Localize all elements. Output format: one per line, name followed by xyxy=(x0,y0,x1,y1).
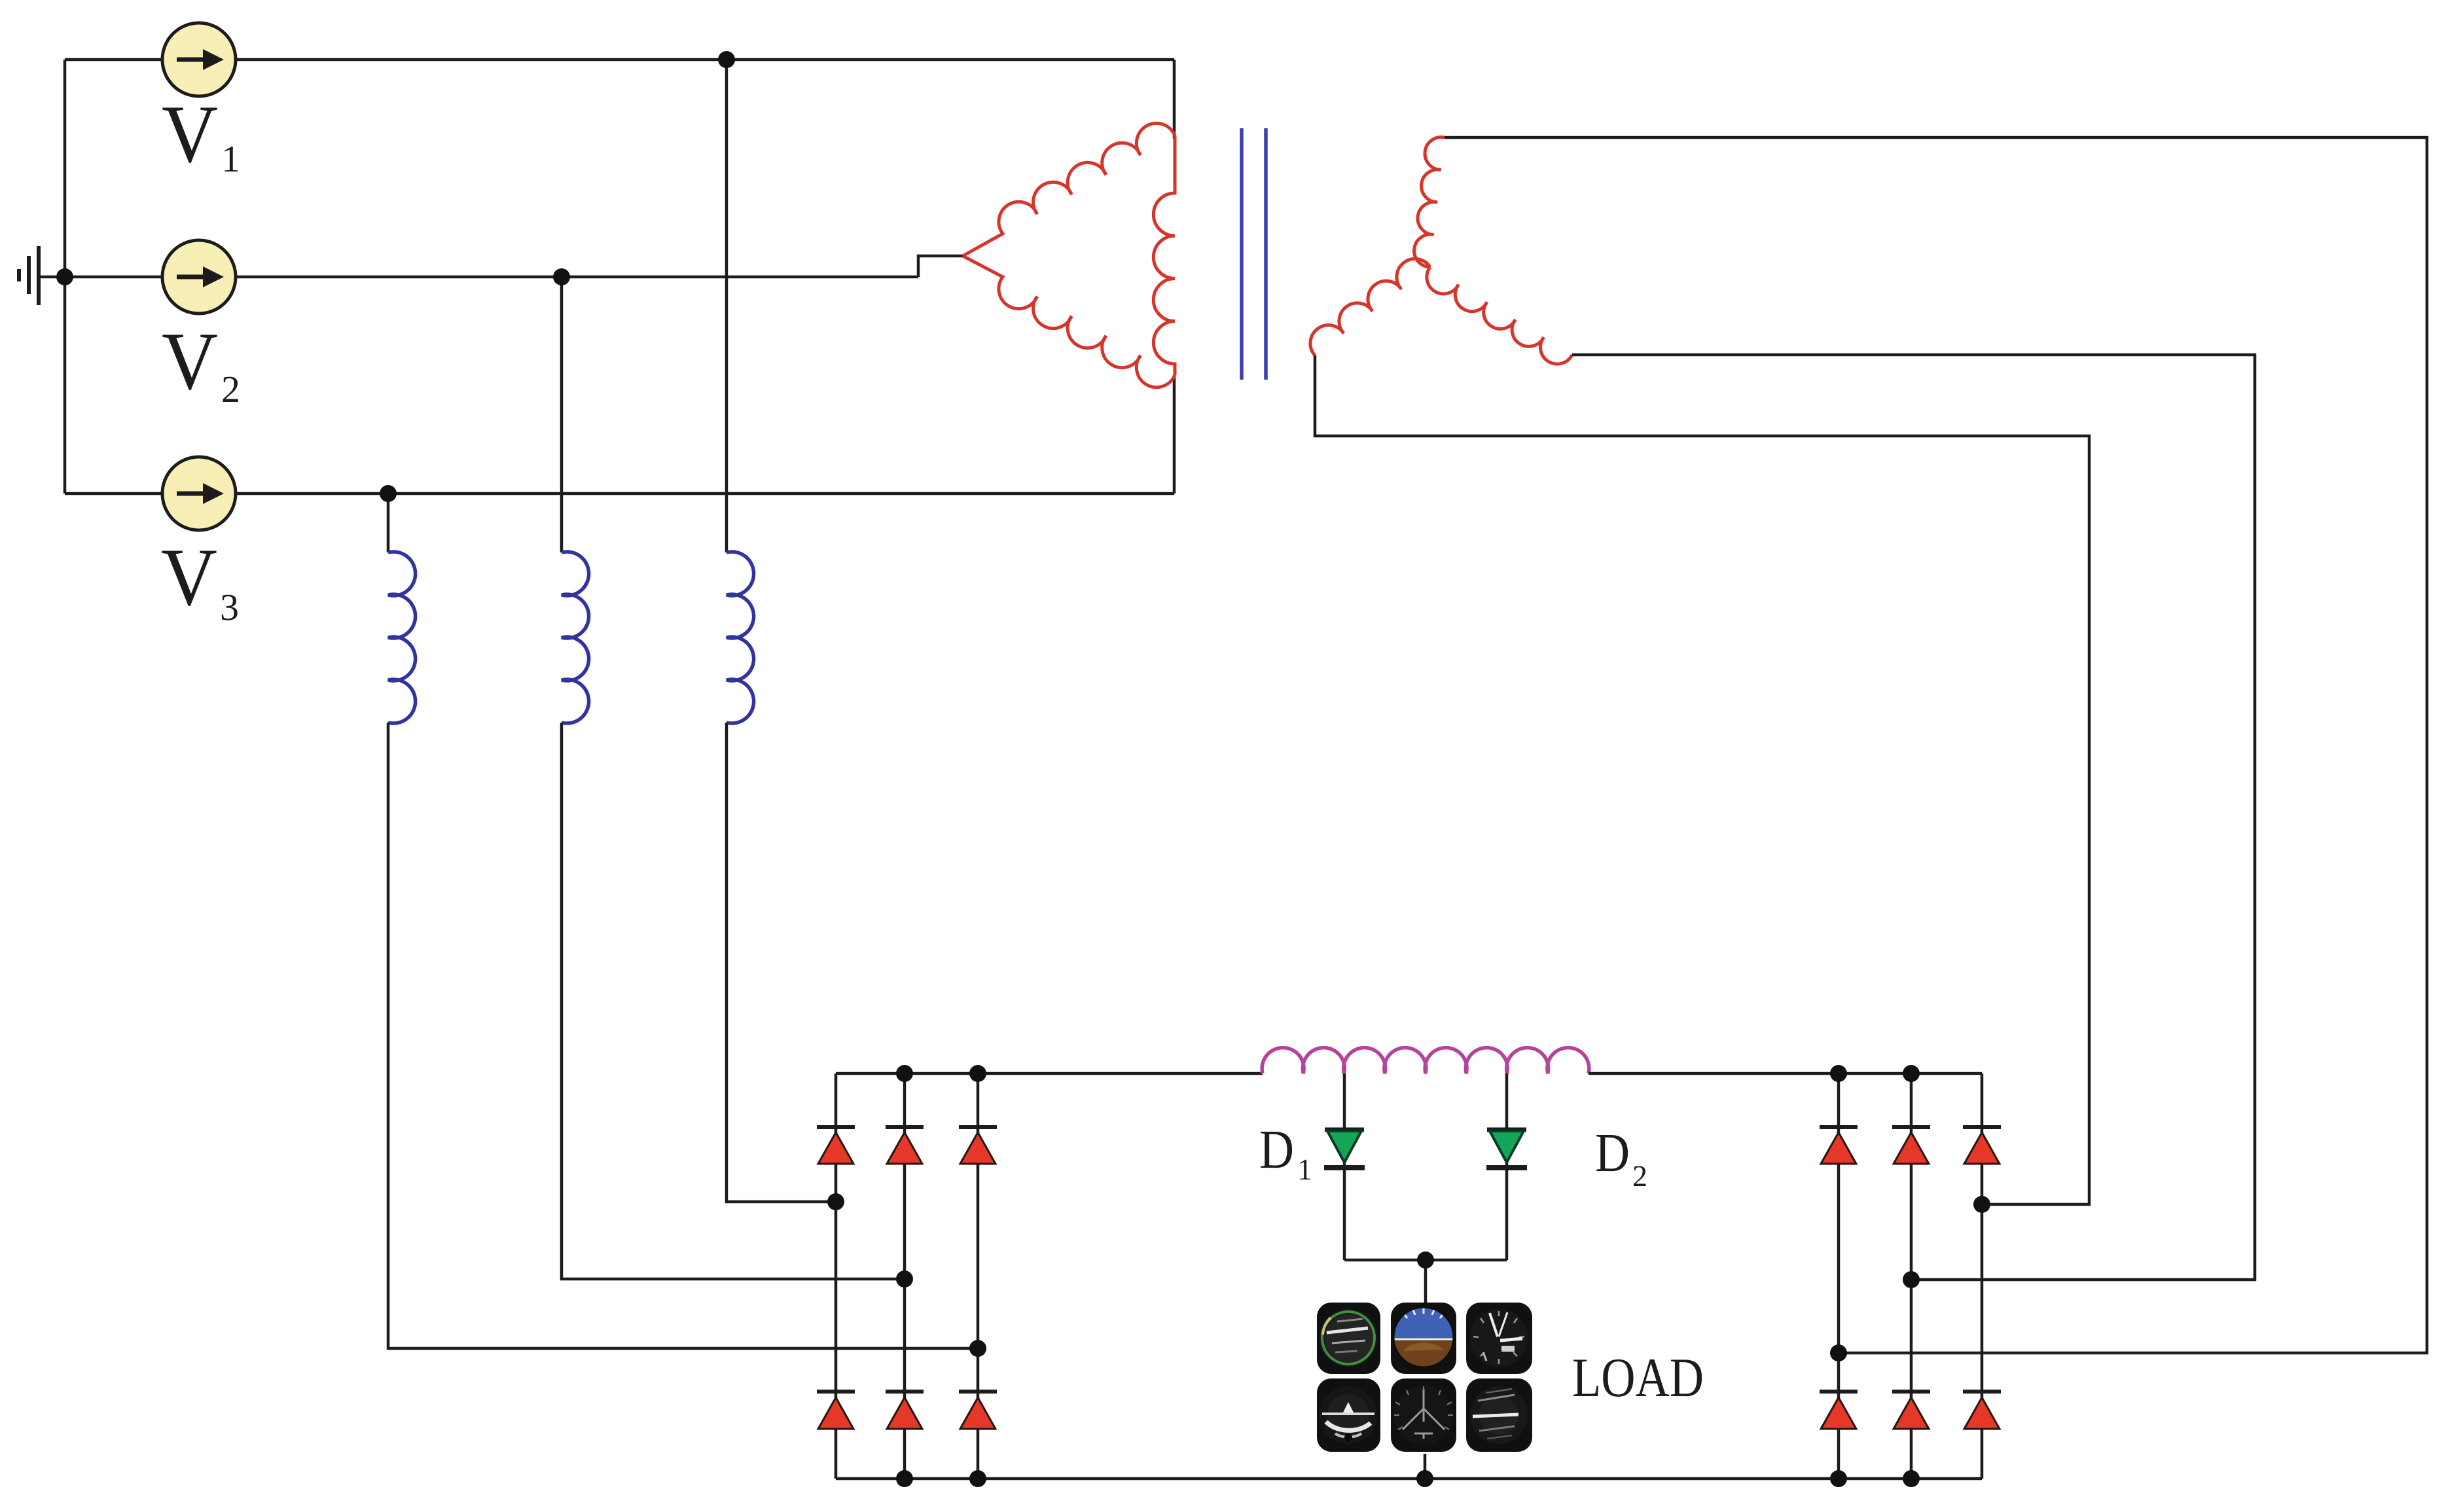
node: left leg2 mid xyxy=(896,1270,913,1287)
transformer core xyxy=(1240,128,1244,380)
diode left bank top 3 xyxy=(959,1127,997,1164)
wire: wye bottom-right arm to middle right L, down to right-bank leg2 xyxy=(1572,355,2255,1280)
svg-text:V: V xyxy=(162,89,218,180)
node: top bus / left leg3 xyxy=(969,1065,986,1082)
transformer delta winding bottom side xyxy=(963,256,1175,387)
right rectifier leg 1 xyxy=(1837,1073,1840,1479)
wire: top DC bus right segment xyxy=(1589,1072,1982,1075)
svg-text:V: V xyxy=(161,532,217,623)
load instrument 4 (horizon reference) xyxy=(1317,1378,1380,1452)
wire: stub down to load xyxy=(1424,1260,1427,1304)
left rectifier leg 2 xyxy=(903,1073,907,1479)
diode left bank top 2 xyxy=(886,1127,924,1164)
svg-text:2: 2 xyxy=(221,368,240,410)
wire: left vertical bus xyxy=(63,60,67,494)
svg-text:1: 1 xyxy=(1297,1153,1312,1186)
inductor L3 xyxy=(727,552,754,723)
node: bottom bus / right leg1 xyxy=(1830,1470,1847,1487)
wire: L2 down and right to left-bank leg2 xyxy=(562,723,905,1279)
node: bottom bus / left leg2 xyxy=(896,1470,913,1487)
left rectifier leg 3 xyxy=(977,1073,980,1479)
load instrument 2 (attitude indicator) xyxy=(1391,1302,1456,1374)
transformer delta winding top side xyxy=(963,123,1175,256)
node: bottom bus / right leg2 xyxy=(1903,1470,1920,1487)
diode left bank bottom 1 xyxy=(817,1392,855,1429)
wire: V2 row step up to delta apex xyxy=(918,256,963,277)
right rectifier leg 2 xyxy=(1910,1073,1913,1479)
transformer delta winding right side xyxy=(1153,135,1175,375)
svg-text:D: D xyxy=(1595,1123,1630,1183)
freewheeling diode D1 (green) xyxy=(1324,1130,1365,1168)
filter choke (pink) xyxy=(1262,1048,1589,1073)
wire: L3 down and right to left-bank leg1 xyxy=(727,723,836,1202)
node: left leg3 mid xyxy=(969,1340,986,1357)
transformer wye winding top arm xyxy=(1414,137,1445,267)
wire: V1 row top horizontal xyxy=(65,58,1174,62)
svg-text:V: V xyxy=(162,316,218,407)
node: D1-D2 junction xyxy=(1417,1251,1434,1269)
voltage source V1 xyxy=(162,23,236,96)
node: right leg2 mid xyxy=(1903,1271,1920,1288)
load instrument 6 (airspeed) xyxy=(1466,1378,1532,1452)
wire: branch from V2 row to inductor L2 xyxy=(560,277,564,552)
wire: delta bottom stub xyxy=(1173,375,1176,494)
inductor L1 xyxy=(388,552,416,723)
left rectifier leg 1 xyxy=(835,1073,838,1479)
node: V1 row / L3 branch xyxy=(718,51,735,68)
voltage source V2 xyxy=(162,240,236,314)
diode right bank top 2 xyxy=(1892,1127,1930,1164)
svg-text:2: 2 xyxy=(1632,1159,1647,1193)
voltage source V3 xyxy=(162,457,236,530)
wire: D2 branch vertical xyxy=(1505,1073,1509,1260)
load instrument 1 (turn coordinator) xyxy=(1317,1303,1380,1374)
diode left bank bottom 2 xyxy=(886,1392,924,1429)
inductor L2 xyxy=(562,552,589,723)
svg-text:D: D xyxy=(1259,1119,1294,1180)
wire: delta top stub xyxy=(1173,60,1176,139)
diode right bank bottom 1 xyxy=(1820,1392,1858,1429)
wire: D1 branch vertical xyxy=(1343,1073,1346,1260)
wire: L1 down and right to left-bank leg3 xyxy=(388,723,978,1348)
wire: branch from V3 row to inductor L1 xyxy=(387,494,390,552)
ground xyxy=(19,246,39,305)
diode left bank bottom 3 xyxy=(959,1392,997,1429)
diode right bank top 3 xyxy=(1963,1127,2001,1164)
node: top bus / left leg2 xyxy=(896,1065,913,1082)
freewheeling diode D2 (green) xyxy=(1486,1130,1527,1168)
node: V2 row / ground xyxy=(56,268,73,285)
node: left leg1 mid xyxy=(827,1193,844,1210)
svg-text:1: 1 xyxy=(221,137,240,180)
diode left bank top 1 xyxy=(817,1127,855,1164)
load instrument 5 (heading indicator) xyxy=(1391,1378,1456,1452)
node: bottom bus / load xyxy=(1416,1470,1433,1487)
wire: wye top arm to outer right L, down to right-bank leg1 xyxy=(1445,137,2427,1353)
diode right bank top 1 xyxy=(1820,1127,1858,1164)
node: V3 row / L1 branch xyxy=(380,485,397,502)
wire: stub load bottom to bus xyxy=(1424,1454,1427,1479)
wire: wye bottom-left arm down, right, down to right-bank leg3 xyxy=(1315,355,2089,1204)
wire: D1-D2 bottom joining wire xyxy=(1344,1259,1507,1262)
node: bottom bus / left leg3 xyxy=(969,1470,986,1487)
wire: V2 row horizontal xyxy=(39,276,918,279)
node: top bus / right leg1 xyxy=(1830,1065,1847,1082)
wire: branch from V1 row to inductor L3 xyxy=(725,60,728,552)
node: V2 row / L2 branch xyxy=(553,268,570,285)
right rectifier leg 3 xyxy=(1981,1073,1984,1479)
node: top bus / right leg2 xyxy=(1903,1065,1920,1082)
transformer wye winding bottom-left arm xyxy=(1310,259,1430,355)
node: right leg3 mid xyxy=(1973,1196,1990,1213)
wire: top DC bus left segment xyxy=(836,1072,1263,1075)
svg-text:LOAD: LOAD xyxy=(1572,1347,1704,1409)
load instrument 3 (chronometer) xyxy=(1466,1303,1532,1374)
diode right bank bottom 3 xyxy=(1963,1392,2001,1429)
diode right bank bottom 2 xyxy=(1892,1392,1930,1429)
wire: bottom DC bus xyxy=(836,1477,1982,1481)
transformer wye winding bottom-right arm xyxy=(1427,267,1572,364)
wire: V3 row horizontal xyxy=(65,492,1174,495)
svg-text:3: 3 xyxy=(220,586,239,628)
node: right leg1 mid xyxy=(1830,1344,1847,1361)
